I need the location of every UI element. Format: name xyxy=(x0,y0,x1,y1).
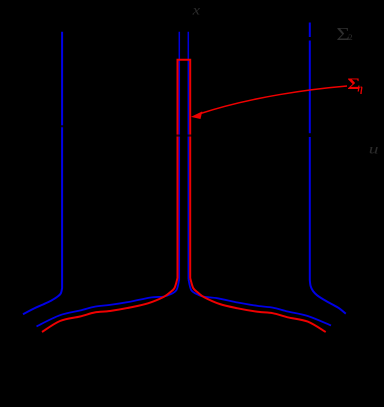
svg-text:u: u xyxy=(369,141,379,156)
dash gap in outer-right wall xyxy=(308,133,311,137)
red curve Σ_η (cap, tube walls, bottom flares) xyxy=(42,60,326,332)
dash gap in tube left walls xyxy=(176,135,181,137)
arrow shaft from Σ_η label to red curve xyxy=(199,86,347,114)
curve Σ2 inner tube left flare (blue) xyxy=(37,279,180,326)
arrowhead xyxy=(191,111,202,119)
curve Σ2 inner tube right flare (blue) xyxy=(188,279,331,326)
svg-text:x: x xyxy=(192,3,201,19)
svg-text:η: η xyxy=(357,83,363,94)
curve Σ2 inner tube right wall (blue) xyxy=(187,32,189,279)
dash gap in outer-left wall xyxy=(61,125,64,127)
curve Σ2 outer-right wall (blue) xyxy=(310,41,346,314)
curve Σ2 outer-left wall (blue) xyxy=(23,32,62,315)
svg-text:2: 2 xyxy=(348,32,352,42)
dash gap in tube right walls xyxy=(187,135,192,137)
curve Σ2 outer-right wall upper dash (blue) xyxy=(309,23,311,38)
curve Σ2 inner tube left wall (blue) xyxy=(178,32,180,279)
